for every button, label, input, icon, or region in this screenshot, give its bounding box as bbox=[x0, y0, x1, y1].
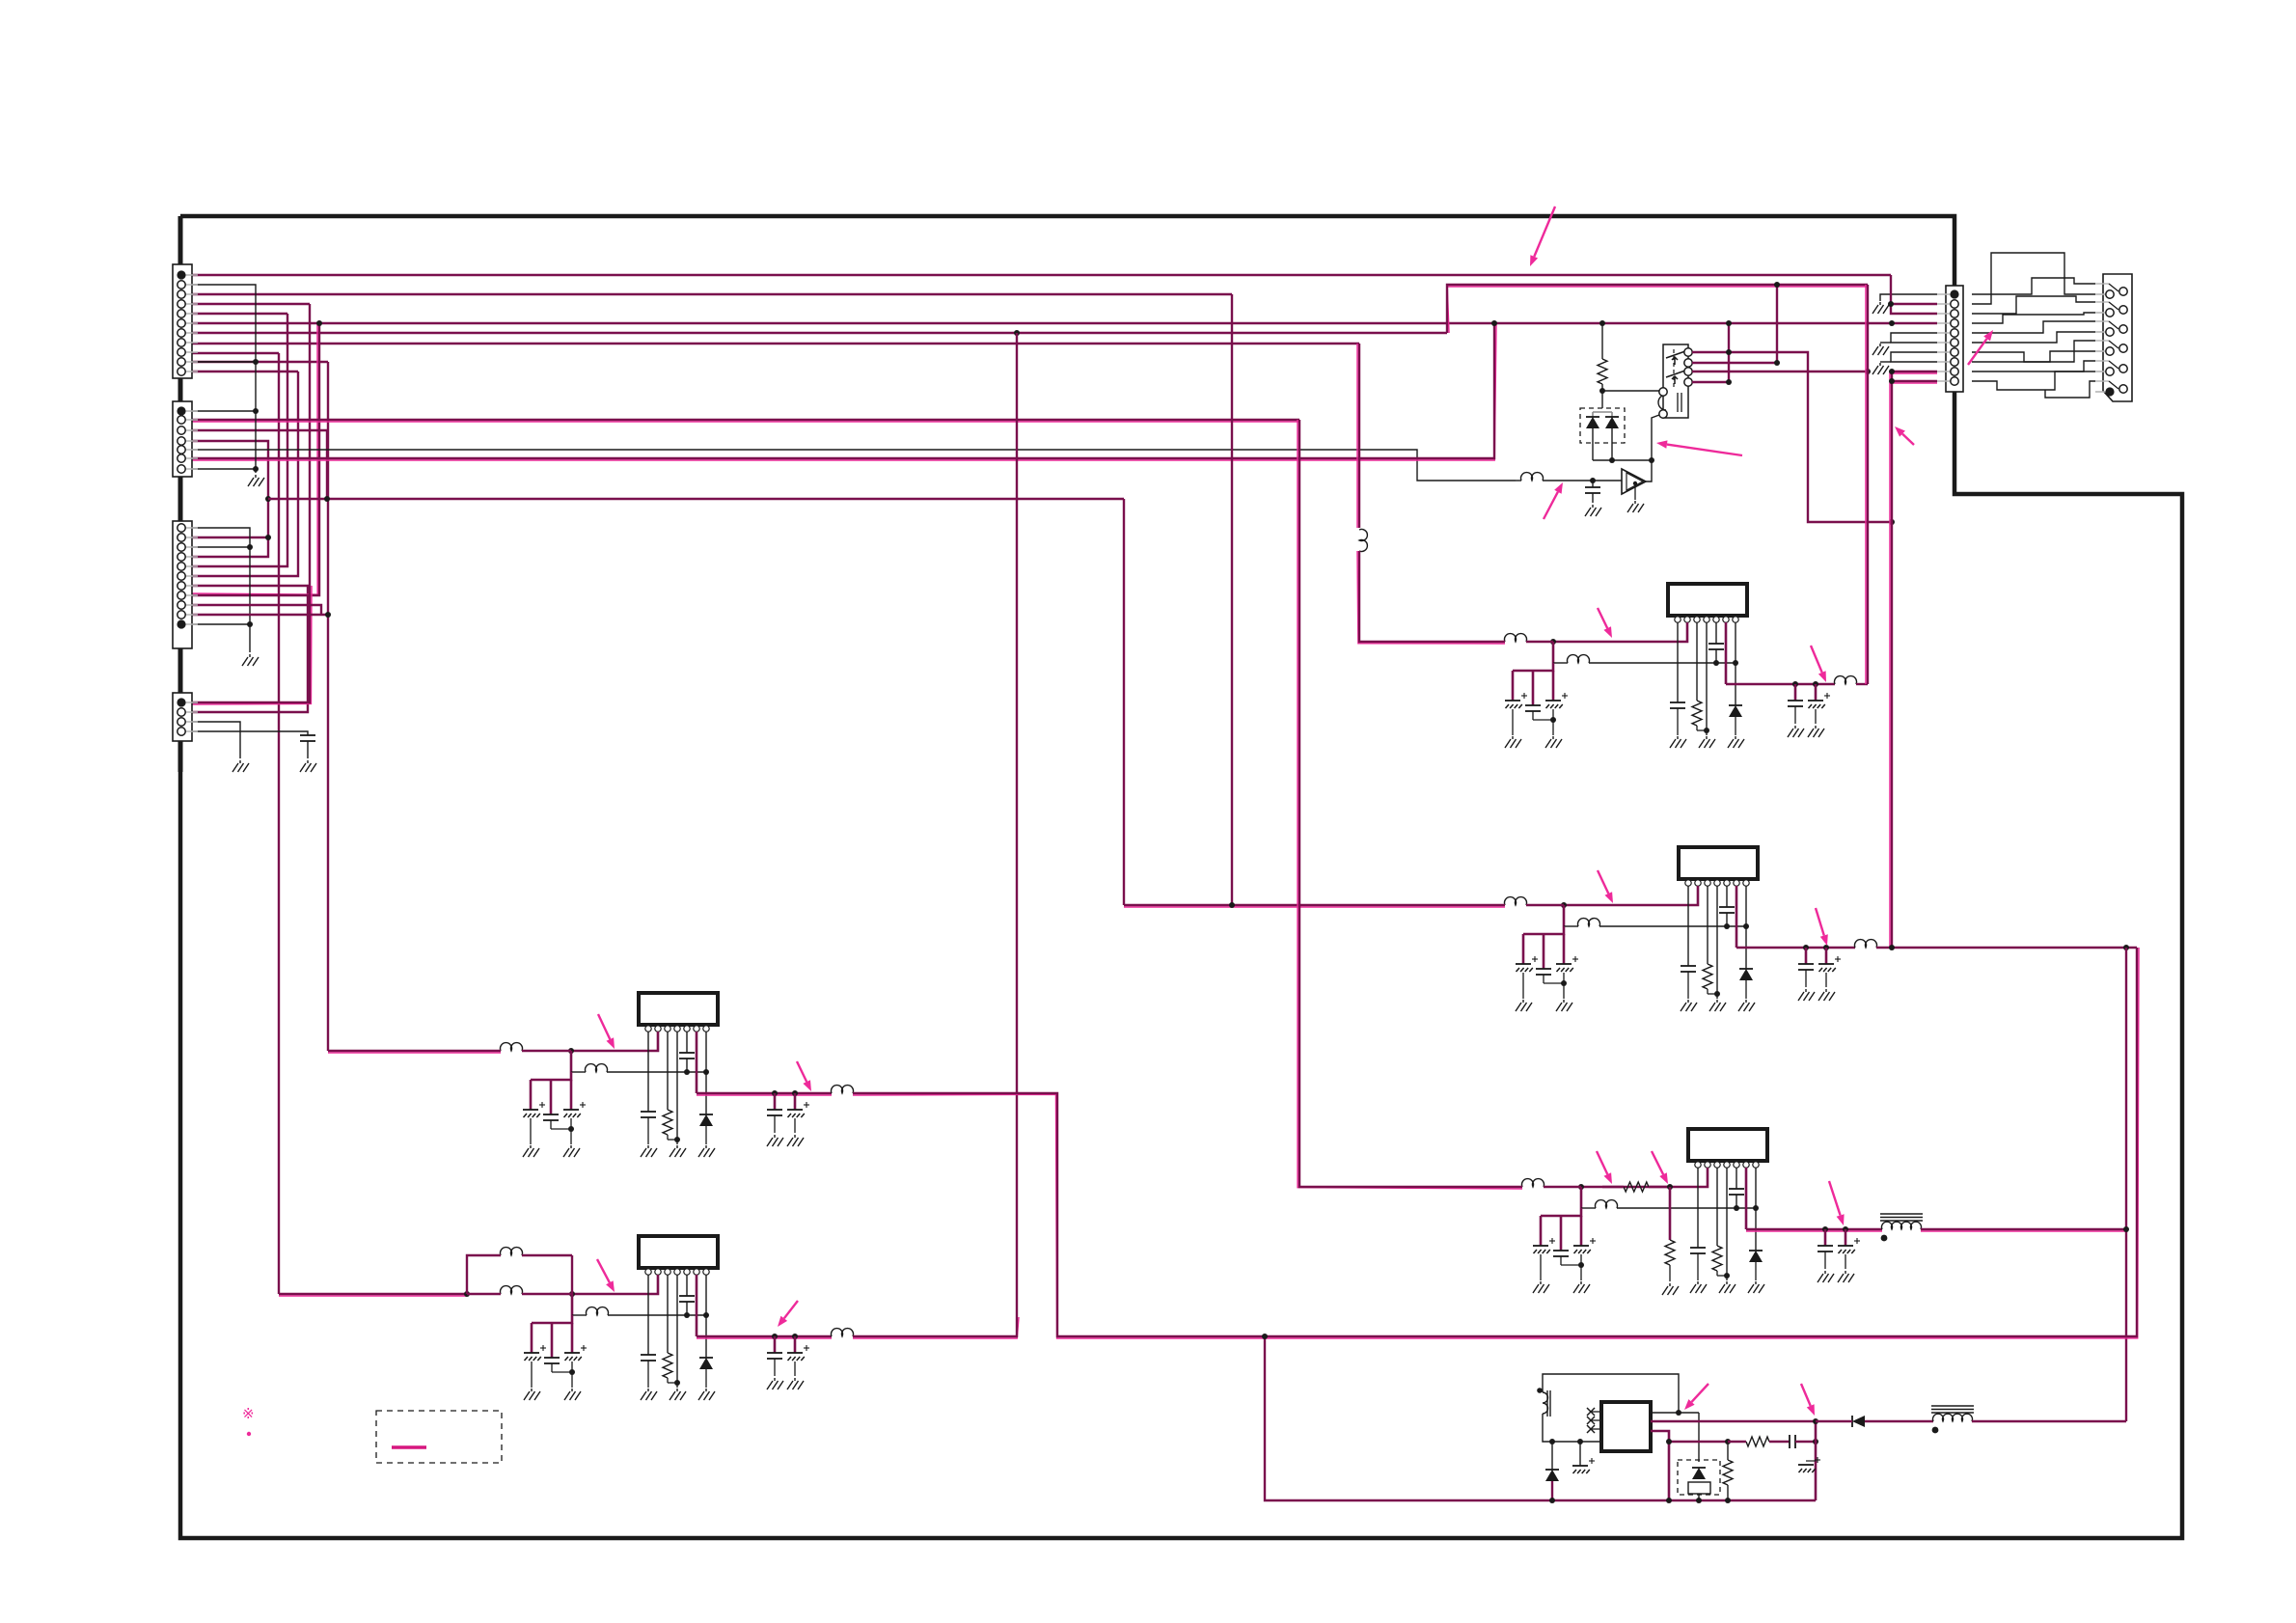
wire net D (J1-4 to J4-1) bbox=[189, 303, 310, 305]
ground left-2 bbox=[242, 654, 259, 666]
wire regulator U3 pin4 drop bbox=[1726, 1168, 1728, 1280]
ground U5 oc2 bbox=[787, 1378, 804, 1389]
ground regulator U4 p1 bbox=[641, 1145, 657, 1157]
connector J6 bbox=[2095, 274, 2132, 401]
node N-branch bbox=[265, 496, 271, 502]
arrow a10 bbox=[1597, 1151, 1612, 1184]
wire regulator U4 thin rail bbox=[607, 1071, 706, 1073]
node regulator U3 in-j bbox=[1578, 1184, 1584, 1190]
wire net L (J2-2 to U3 input column) bbox=[189, 420, 1299, 422]
wire K1 out3 bbox=[1692, 371, 1868, 372]
capacitor C45 bbox=[679, 1053, 695, 1059]
capacitor C54 bbox=[641, 1355, 656, 1361]
wire J5-3 feed bbox=[1891, 304, 1937, 314]
ground C41 bbox=[1585, 505, 1601, 516]
wire U4 oc2 stub bbox=[794, 1093, 797, 1110]
node regulator U5 c23 bbox=[569, 1369, 575, 1375]
arrow a3 bbox=[1895, 426, 1914, 445]
wire regulator U3 thin rail drop bbox=[1580, 1187, 1583, 1208]
node U3 oc2 bbox=[1843, 1226, 1848, 1232]
connector J3 bbox=[173, 521, 198, 648]
wire U2 input column C bbox=[1231, 294, 1233, 905]
arrow a16 bbox=[778, 1301, 798, 1327]
ground U3 oc2 bbox=[1838, 1271, 1854, 1282]
wire regulator U4 thin rail drop bbox=[570, 1051, 573, 1072]
wire bus V2 (J1-11 to J3-6) bbox=[189, 371, 298, 576]
wire regulator U4 pin1 drop bbox=[647, 1032, 649, 1112]
wire regulator U1 pin4 drop bbox=[1706, 622, 1708, 735]
ground left-4 bbox=[300, 760, 316, 772]
wire U3 oc1 stub bbox=[1824, 1229, 1827, 1246]
wire U6 out upper bbox=[1651, 1420, 1816, 1423]
wire regulator U4 cluster drop2 bbox=[550, 1080, 553, 1114]
capacitor C21 bbox=[1516, 956, 1538, 972]
wire net H (J1-8 long line) bbox=[189, 343, 1359, 344]
wire regulator U3 pin5 drop bbox=[1736, 1168, 1737, 1189]
node regulator U1 c23 bbox=[1550, 717, 1556, 723]
ground U1 oc2 bbox=[1808, 726, 1824, 737]
node out-d bbox=[1813, 1418, 1818, 1424]
wire U5 input feed bbox=[279, 1294, 467, 1296]
wire regulator U3 cluster drop2 bbox=[1560, 1216, 1563, 1251]
capacitor C23 bbox=[1556, 956, 1578, 972]
capacitor C24 bbox=[1681, 966, 1696, 972]
ground regulator U3 p4 bbox=[1719, 1281, 1736, 1293]
node Q-F bbox=[1491, 320, 1497, 326]
node regulator U5 r2 bbox=[703, 1312, 709, 1318]
node M-O bbox=[324, 496, 330, 502]
capacitor C34 bbox=[1690, 1248, 1706, 1253]
wire U3 input feed bbox=[1298, 420, 1522, 1189]
DC-DC IC U6 bbox=[1601, 1402, 1651, 1451]
wire regulator U5 pin3 drop bbox=[667, 1275, 669, 1353]
connector J4 bbox=[173, 693, 198, 741]
wire U2 input feed bbox=[1124, 905, 1505, 907]
diode D41 bbox=[699, 1114, 713, 1126]
wire net O (mid line from N branch) bbox=[268, 498, 1124, 500]
wire bus V7b (J4-1 rise, marked) bbox=[189, 586, 312, 704]
resistor R21 bbox=[1703, 964, 1712, 989]
node regulator U2 c23 bbox=[1561, 980, 1567, 986]
wire J4-4 cap stub bbox=[189, 731, 308, 735]
wire J5-2 feed bbox=[1891, 275, 1937, 304]
node 265-426 bbox=[253, 408, 259, 414]
wire regulator U2 pin1 drop bbox=[1687, 886, 1689, 966]
wire bus V1 (J1-5 to J3-5) bbox=[189, 314, 287, 566]
wire U5 par down bbox=[467, 1293, 501, 1295]
inductor L11 (input) bbox=[1505, 634, 1527, 642]
capacitor C40 bbox=[300, 735, 315, 741]
ground left-3 bbox=[232, 760, 249, 772]
node regulator U3 r2 bbox=[1753, 1205, 1759, 1211]
inductor L42 bbox=[586, 1064, 608, 1072]
node regulator U5 r-j bbox=[674, 1380, 680, 1386]
node U3 oc1 bbox=[1822, 1226, 1828, 1232]
wire regulator U3 cluster drop3 bbox=[1580, 1216, 1583, 1246]
wire bus V7 (J4-1 rise to J1-4) bbox=[309, 304, 311, 586]
wire J3-9 stub bbox=[189, 605, 321, 615]
wire net P (J2-5 buffer line) bbox=[189, 450, 1516, 481]
ground regulator U4 c1 bbox=[523, 1145, 539, 1157]
wire bus V6 (J1-9 to U5 input) bbox=[278, 353, 280, 1294]
wire U4 oc1 stub bbox=[774, 1093, 777, 1110]
wire fb chain start bbox=[1669, 1441, 1728, 1443]
node 265-375 bbox=[253, 359, 259, 365]
wire J5-9 stub bbox=[1892, 371, 1937, 373]
wire U3 oc2 stub bbox=[1845, 1229, 1847, 1246]
wire regulator U4 pin4 drop bbox=[676, 1032, 678, 1144]
node fbc2 bbox=[1725, 1439, 1731, 1444]
node t1b-2 bbox=[1577, 1439, 1583, 1444]
wire regulator U4 pin7 drop bbox=[705, 1032, 707, 1114]
capacitor C33 bbox=[1573, 1238, 1596, 1253]
node J5-9 bbox=[1889, 369, 1895, 374]
wire regulator U1 cluster drop2 bbox=[1532, 671, 1535, 705]
node rail2 bbox=[1666, 1498, 1672, 1503]
node U5 oc1 bbox=[772, 1334, 778, 1339]
node regulator U2 r1 bbox=[1724, 923, 1730, 929]
node rail4 bbox=[1725, 1498, 1731, 1503]
node K1-295 bbox=[1774, 282, 1780, 288]
wire J5-7/8 gnd bbox=[1891, 352, 1937, 362]
wire net G (J1-7 long line) bbox=[189, 332, 1447, 334]
wire regulator U2 pin7 drop bbox=[1745, 886, 1747, 969]
wire net E (J1-5 jog) bbox=[189, 313, 287, 315]
ground regulator U3 p7 bbox=[1748, 1281, 1764, 1293]
ground regulator U4 p4 bbox=[670, 1145, 686, 1157]
arrow a6 bbox=[1598, 608, 1612, 638]
resistor R51 bbox=[663, 1353, 672, 1378]
wire U1 oc1 stub bbox=[1794, 684, 1797, 701]
capacitor C55 bbox=[679, 1296, 695, 1302]
wire U3 out to column A bbox=[1921, 1229, 2126, 1231]
wire buffer out rise bbox=[1646, 415, 1659, 481]
wire regulator U2 pin4 drop bbox=[1716, 886, 1718, 999]
wire K1 out2 bbox=[1692, 362, 1777, 364]
capacitor C46 bbox=[767, 1110, 782, 1115]
wire net G rise to net B bbox=[1447, 285, 1868, 333]
node U1 oc1 bbox=[1792, 681, 1798, 687]
wire regulator U2 pin3 drop bbox=[1707, 886, 1708, 964]
wire U3 output bbox=[1746, 1229, 1882, 1231]
node K1e bbox=[1889, 519, 1895, 525]
wire regulator U3 pin1 drop bbox=[1697, 1168, 1699, 1248]
wire U4 input feed bbox=[328, 1051, 501, 1053]
wire net I (J1-9 jog) bbox=[189, 352, 279, 354]
wire net A (J1-1 long line) bbox=[189, 274, 1891, 276]
inductor L42 (output) bbox=[832, 1086, 854, 1093]
wire regulator U5 pin7 drop bbox=[705, 1275, 707, 1358]
wire regulator U1 cluster rail bbox=[1513, 663, 1553, 671]
arrow a4 bbox=[1656, 440, 1742, 455]
node U2-colA bbox=[2123, 945, 2129, 950]
node dualdiode-top bbox=[1599, 388, 1605, 394]
wire regulator U2 cluster drop3 bbox=[1563, 934, 1566, 964]
wire R10 top link bbox=[1601, 323, 1603, 359]
arrow a8 bbox=[1598, 870, 1613, 903]
wire U1 output rise bbox=[1866, 285, 1868, 684]
capacitor C32 bbox=[1553, 1251, 1569, 1256]
capacitor C41 bbox=[523, 1102, 545, 1117]
ground J5-7 bbox=[1872, 363, 1889, 374]
node N-J3-2 bbox=[265, 535, 271, 540]
ground regulator U3 c1 bbox=[1533, 1281, 1549, 1293]
wire gnd link J1-2/J1-10/J2-1/J2-7 bbox=[189, 285, 256, 473]
wire U2 oc1 stub bbox=[1805, 948, 1808, 964]
capacitor C12 bbox=[1525, 705, 1541, 711]
ground regulator U5 p4 bbox=[670, 1389, 686, 1400]
node netF-V4 bbox=[316, 320, 322, 326]
wire regulator U5 input to pin2 bbox=[572, 1275, 658, 1294]
wire D62 right bbox=[1865, 1420, 1933, 1422]
capacitor C44 bbox=[641, 1112, 656, 1117]
wire regulator U1 pin7 drop bbox=[1735, 622, 1736, 705]
regulator U2 bbox=[1679, 847, 1758, 886]
wire regulator U5 cluster drop3 bbox=[571, 1323, 574, 1353]
wire net K (J1-11 jog) bbox=[189, 371, 298, 372]
wire regulator U2 thin rail bbox=[1599, 925, 1746, 927]
optocoupler PC1 bbox=[1678, 1413, 1720, 1500]
ground regulator U1 c3 bbox=[1545, 736, 1562, 748]
node J5-F bbox=[1889, 320, 1895, 326]
inductor L12 bbox=[1568, 655, 1590, 663]
ground regulator U3 p1 bbox=[1690, 1281, 1707, 1293]
resistor R11 bbox=[1692, 701, 1702, 726]
node t1b-1 bbox=[1549, 1439, 1555, 1444]
arrow a18 bbox=[1801, 1384, 1815, 1416]
node d-rail-1 bbox=[1609, 457, 1615, 463]
wire J5-9/10 column bbox=[1890, 371, 1892, 948]
node 340-637 bbox=[325, 612, 331, 618]
inductor L52 (output) bbox=[832, 1329, 854, 1336]
inductor L51b (input lower) bbox=[501, 1286, 523, 1294]
wire U5 par merge bbox=[571, 1255, 573, 1294]
arrow a13 bbox=[598, 1014, 615, 1049]
capacitor C14 bbox=[1670, 702, 1685, 708]
wire regulator U5 thin rail bbox=[608, 1314, 706, 1316]
node fbc1 bbox=[1666, 1439, 1672, 1444]
wire regulator U4 output drop bbox=[696, 1032, 698, 1093]
node regulator U2 in-j bbox=[1561, 902, 1567, 908]
wire regulator U5 pin4 drop bbox=[676, 1275, 678, 1388]
regulator U1 bbox=[1668, 584, 1747, 622]
capacitor C26 bbox=[1798, 964, 1814, 970]
node fb bbox=[1676, 1410, 1681, 1416]
ground regulator U2 p4 bbox=[1709, 1000, 1726, 1011]
capacitor C41 bbox=[1585, 487, 1600, 493]
node F-R10 bbox=[1599, 320, 1605, 326]
inductor L31 (input) bbox=[1522, 1179, 1544, 1187]
wire regulator U2 thin rail drop bbox=[1563, 905, 1566, 926]
diode D51 bbox=[699, 1358, 713, 1369]
wire bottom rail bbox=[1534, 1499, 1816, 1502]
ground regulator U1 p7 bbox=[1728, 736, 1744, 748]
wire U1 oc2 stub bbox=[1815, 684, 1818, 701]
capacitor C35 bbox=[1729, 1189, 1744, 1195]
capacitor C13 bbox=[1545, 693, 1568, 708]
node regulator U3 c23 bbox=[1578, 1262, 1584, 1268]
wire U5 oc2 stub bbox=[794, 1336, 797, 1353]
inductor L52 bbox=[587, 1307, 609, 1315]
diode D61 bbox=[1551, 1442, 1553, 1470]
ground regulator U5 p1 bbox=[641, 1389, 657, 1400]
wire regulator U4 pin5 drop bbox=[686, 1032, 688, 1053]
capacitor C15 bbox=[1708, 644, 1724, 649]
node J5-23 bbox=[1888, 301, 1894, 307]
wire regulator U2 output drop bbox=[1736, 886, 1738, 948]
capacitor C22 bbox=[1536, 969, 1551, 975]
wire U4 output bbox=[697, 1093, 832, 1095]
wire T1 feedback loop bbox=[1543, 1374, 1679, 1413]
ground U2 oc1 bbox=[1798, 989, 1815, 1001]
wire regulator U5 output drop bbox=[696, 1275, 698, 1336]
node regulator U4 in-j bbox=[568, 1048, 574, 1054]
node U2-J5 col bbox=[1889, 945, 1895, 950]
wire regulator U2 cluster drop2 bbox=[1543, 934, 1545, 969]
arrow a1 bbox=[1530, 206, 1555, 266]
ground J5-5 bbox=[1872, 344, 1889, 355]
regulator U5 bbox=[639, 1236, 718, 1275]
capacitor C16 bbox=[1788, 701, 1803, 706]
wire T1 bottom bbox=[1543, 1414, 1601, 1442]
wire regulator U4 cluster rail bbox=[531, 1072, 571, 1080]
arrow a15 bbox=[597, 1259, 615, 1292]
capacitor C25 bbox=[1719, 907, 1735, 913]
ground regulator U4 c3 bbox=[563, 1145, 580, 1157]
wire regulator U1 cluster drop3 bbox=[1552, 671, 1555, 701]
wire gnd link J3-1/3/11 bbox=[189, 528, 250, 652]
connector J5 bbox=[1937, 286, 1963, 392]
ground regulator U2 c1 bbox=[1516, 1000, 1532, 1011]
connector J1 bbox=[173, 264, 198, 378]
node regulator U5 in-j bbox=[569, 1291, 575, 1297]
wire regulator U1 output drop bbox=[1725, 622, 1728, 684]
wire regulator U4 input to pin2 bbox=[571, 1032, 658, 1051]
inductor L22 (output) bbox=[1855, 940, 1877, 948]
capacitor C43 bbox=[563, 1102, 586, 1117]
wire regulator U1 input to pin2 bbox=[1553, 622, 1687, 642]
node regulator U4 r2 bbox=[703, 1069, 709, 1075]
inductor L51a (input upper) bbox=[501, 1248, 523, 1255]
inductor L10 (vertical on U1 feed) bbox=[1359, 530, 1367, 552]
regulator U4 bbox=[639, 993, 718, 1032]
wire regulator U4 cluster drop3 bbox=[570, 1080, 573, 1110]
wire K1 column bbox=[1728, 323, 1730, 382]
wire R10 to relay bbox=[1602, 384, 1659, 391]
wire diode bottom rail bbox=[1593, 459, 1652, 461]
wire regulator U5 thin rail drop bbox=[571, 1294, 574, 1315]
arrow a14 bbox=[797, 1061, 811, 1091]
wire U2 output bbox=[1736, 947, 1855, 949]
wire net C (J1-3 to IC2 input column) bbox=[189, 293, 1232, 295]
resistor R62 bbox=[1746, 1437, 1769, 1446]
wire T3 to column A bbox=[1972, 1420, 2126, 1422]
ground regulator U5 c3 bbox=[564, 1389, 581, 1400]
wire U3 R33 drop bbox=[1669, 1187, 1672, 1240]
capacitor C51 bbox=[524, 1345, 546, 1361]
ground buffer bbox=[1627, 501, 1644, 512]
capacitor C36 bbox=[1818, 1246, 1833, 1252]
node U4 oc2 bbox=[792, 1090, 798, 1096]
ground regulator U1 p1 bbox=[1670, 736, 1686, 748]
diode D62 (series) bbox=[1852, 1416, 1865, 1427]
capacitor C53 bbox=[564, 1345, 587, 1361]
diode D31 bbox=[1749, 1251, 1763, 1262]
ground regulator U2 p7 bbox=[1738, 1000, 1755, 1011]
inductor L32 bbox=[1596, 1200, 1618, 1208]
capacitor C62 (series) bbox=[1769, 1435, 1816, 1448]
relay K1 bbox=[1658, 344, 1692, 418]
node 259-567 bbox=[247, 544, 253, 550]
wire J5-5/6 gnd bbox=[1891, 333, 1937, 343]
wire C41 stub bbox=[1592, 481, 1594, 487]
ground regulator U1 p4 bbox=[1699, 736, 1715, 748]
wire regulator U2 cluster rail bbox=[1523, 926, 1564, 934]
wire U1 input feed2 bbox=[1357, 551, 1505, 644]
legend dashed box bbox=[376, 1411, 502, 1463]
arrow a12 bbox=[1829, 1181, 1845, 1225]
wire regulator U3 cluster rail bbox=[1541, 1208, 1581, 1216]
wire J5-1 gnd bbox=[1880, 294, 1937, 301]
wire regulator U3 cluster drop1 bbox=[1540, 1216, 1543, 1246]
transformer T1 bbox=[1537, 1388, 1550, 1417]
inductor L41 (input) bbox=[501, 1043, 523, 1051]
wire regulator U5 pin5 drop bbox=[686, 1275, 688, 1296]
wire right column v bbox=[1815, 1421, 1818, 1500]
ground U3 oc1 bbox=[1818, 1271, 1834, 1282]
wire buffer in2 bbox=[1543, 480, 1622, 481]
ground J5-1 bbox=[1872, 302, 1889, 314]
node U2 oc1 bbox=[1803, 945, 1809, 950]
wire K1 out1 bbox=[1692, 352, 1892, 522]
ground regulator U2 p1 bbox=[1681, 1000, 1697, 1011]
node U2 oc2 bbox=[1823, 945, 1829, 950]
capacitor C37 bbox=[1838, 1238, 1860, 1253]
wire U6 out lower bbox=[1651, 1431, 1669, 1500]
wire U4 output to DC-DC feed bbox=[853, 948, 2139, 1338]
ground R33 bbox=[1662, 1283, 1679, 1295]
arrow a9 bbox=[1816, 908, 1828, 946]
wire regulator U5 cluster rail bbox=[532, 1315, 572, 1323]
arrow a5 bbox=[1544, 482, 1563, 519]
inductor L22 bbox=[1578, 919, 1600, 926]
wire regulator U1 thin rail drop bbox=[1552, 642, 1555, 663]
node J5-10 bbox=[1889, 378, 1895, 384]
node U5 oc2 bbox=[792, 1334, 798, 1339]
capacitor C56 bbox=[767, 1353, 782, 1359]
wire regulator U3 input to pin2 bbox=[1581, 1168, 1708, 1187]
node U4 oc1 bbox=[772, 1090, 778, 1096]
wire net N (J2-4 to J3-4) bbox=[189, 441, 268, 557]
coupled inductor T3 bbox=[1931, 1406, 1974, 1433]
wire regulator U3 pin7 drop bbox=[1755, 1168, 1757, 1251]
ground U2 oc2 bbox=[1818, 989, 1835, 1001]
wire bus V5 (J1-10 to U4 input) bbox=[327, 362, 329, 1051]
svg-text:※: ※ bbox=[242, 1406, 255, 1422]
node regulator U1 r-j bbox=[1704, 728, 1709, 733]
wire net G column upper bbox=[1016, 333, 1018, 1317]
inductor L12 (output) bbox=[1835, 676, 1857, 684]
wire x1311 drop bbox=[1265, 1336, 1534, 1500]
wire regulator U5 pin1 drop bbox=[647, 1275, 649, 1355]
capacitor C57 bbox=[787, 1345, 809, 1361]
node C-input bbox=[1229, 902, 1235, 908]
wire regulator U1 pin1 drop bbox=[1677, 622, 1679, 702]
inductor L7 bbox=[1521, 473, 1544, 481]
node K1-376 bbox=[1774, 360, 1780, 366]
node K1d bbox=[1865, 369, 1871, 374]
resistor R32 (series) bbox=[1624, 1182, 1649, 1192]
